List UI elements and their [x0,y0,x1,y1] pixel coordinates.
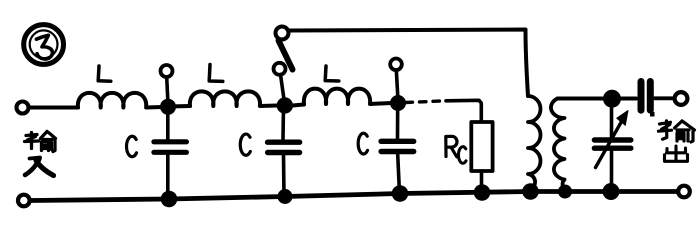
terminal input bottom [18,195,30,207]
wire input top [29,106,79,110]
junction dot bottom secondary [558,185,572,199]
node tap 1 [161,65,173,77]
terminal input top [17,102,29,114]
capacitor C output [621,82,673,111]
switch blade [279,41,293,70]
wire contact to junction2 [281,75,285,104]
label L (L3) [325,66,339,81]
capacitor C2 [268,106,300,197]
scan speckle [650,112,655,117]
label RC [446,136,466,163]
label C (C1) [127,136,137,156]
terminal output top [675,92,688,105]
transformer secondary winding [551,99,566,190]
capacitor C1 [154,107,187,199]
junction dot bottom CV [603,183,620,200]
wire dashed to resistor [406,101,446,103]
inductor L3 [304,89,391,104]
switch contact circle [274,63,286,75]
label ru (input) [25,158,54,176]
variable capacitor CV [594,99,630,192]
junction dot 3 top [390,95,406,111]
junction dot bottom C2 [278,189,293,204]
capacitor C3 [381,103,414,194]
inductor L2 [190,91,277,106]
junction dot bottom C3 [392,185,409,202]
switch top circle [276,27,289,40]
junction dot top right [603,90,621,108]
resistor RC [471,122,492,193]
transformer primary winding [528,96,541,189]
label C (C3) [358,133,367,154]
wire secondary top to junction [558,97,606,101]
label chu (output) [665,146,688,161]
wire junction2 to L3 [293,105,305,106]
wire switch to transformer top [290,30,529,97]
wire tap1 to junction [167,77,168,104]
node tap 3 [390,59,402,71]
figure number badge (3) [24,25,64,65]
wire junction1 to L2 [168,104,190,109]
label C (C2) [240,134,250,155]
junction dot 1 top [160,99,176,115]
wire solid to resistor top [446,100,481,122]
wire bottom bus [31,192,677,201]
label shu (input) [25,132,56,152]
label shu (output) [659,121,695,142]
junction dot bottom primary [522,183,539,200]
label L (L2) [209,65,223,82]
junction dot 2 top [277,97,293,113]
wire tap3 to node [396,70,398,100]
junction dot bottom RC [474,184,491,201]
inductor L1 [78,93,162,108]
label L (L1) [98,66,111,81]
terminal output bottom [678,186,690,198]
junction dot bottom C1 [161,191,178,208]
